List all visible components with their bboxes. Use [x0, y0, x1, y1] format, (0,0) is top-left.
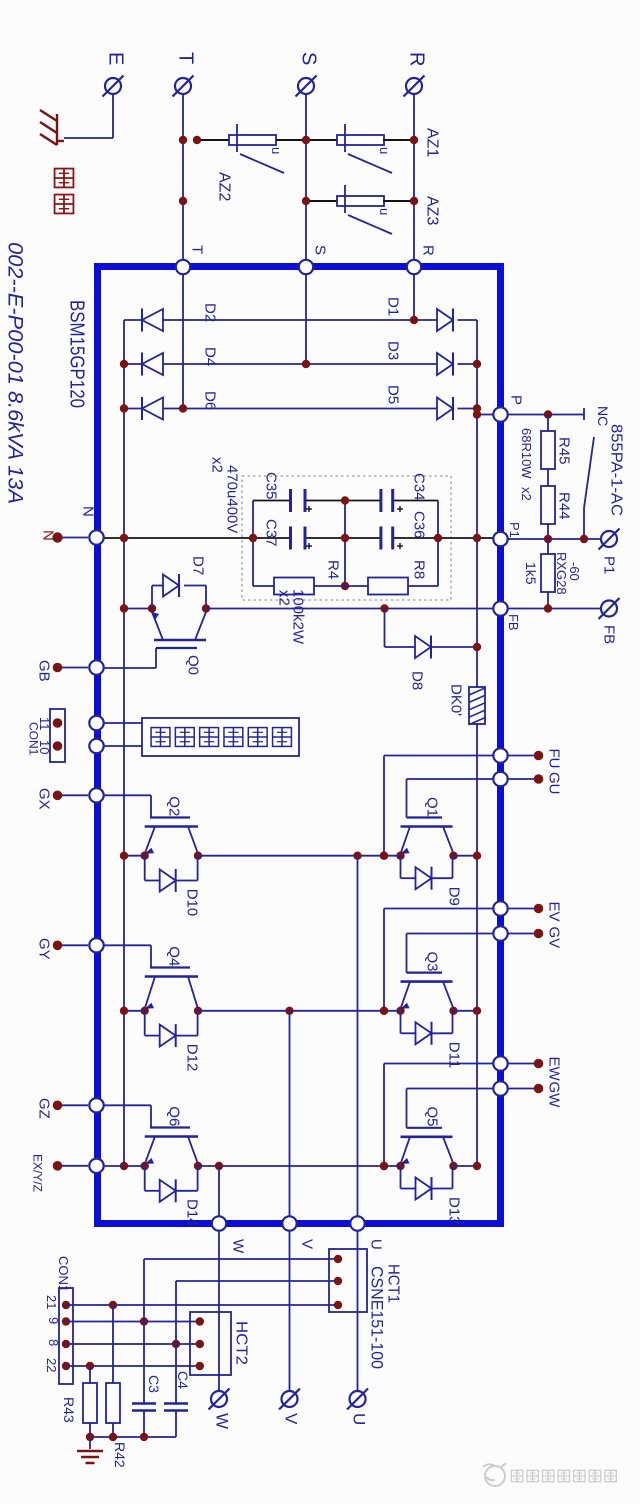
svg-text:N: N [79, 506, 96, 517]
svg-text:9: 9 [46, 1317, 61, 1324]
svg-text:D3: D3 [384, 341, 401, 360]
svg-text:Q0: Q0 [184, 655, 201, 675]
svg-text:EV: EV [545, 902, 562, 922]
svg-text:R: R [419, 245, 436, 256]
svg-text:C4: C4 [175, 1371, 191, 1389]
svg-text:855PA-1-AC: 855PA-1-AC [608, 424, 625, 516]
svg-text:D9: D9 [445, 887, 462, 906]
svg-text:GY: GY [35, 938, 52, 960]
svg-text:R44: R44 [555, 492, 572, 520]
svg-text:AZ2: AZ2 [216, 172, 233, 201]
svg-text:u: u [269, 147, 284, 154]
svg-text:8: 8 [46, 1339, 61, 1346]
svg-text:V: V [298, 1239, 315, 1249]
svg-text:-60: -60 [567, 562, 582, 581]
svg-text:EW: EW [545, 1057, 562, 1082]
svg-text:22: 22 [44, 1358, 59, 1372]
svg-text:R4: R4 [324, 560, 341, 579]
svg-text:W: W [213, 1413, 232, 1429]
svg-text:FU: FU [545, 749, 562, 769]
svg-text:CSNE151-100: CSNE151-100 [368, 1266, 387, 1369]
svg-text:Q4: Q4 [165, 946, 182, 966]
svg-text:C37: C37 [262, 519, 279, 547]
svg-text:C34: C34 [410, 473, 427, 501]
svg-text:GU: GU [545, 772, 562, 795]
svg-text:Q3: Q3 [423, 952, 440, 972]
svg-text:R43: R43 [61, 1397, 77, 1423]
svg-text:V: V [282, 1413, 301, 1425]
svg-text:D6: D6 [201, 391, 218, 410]
svg-text:u: u [377, 208, 392, 215]
svg-text:AZ3: AZ3 [424, 196, 441, 225]
svg-text:D7: D7 [189, 556, 206, 575]
svg-text:S: S [311, 245, 328, 255]
svg-text:Q1: Q1 [423, 797, 440, 817]
svg-text:P1: P1 [507, 522, 522, 538]
svg-text:EX/Y/Z: EX/Y/Z [31, 1154, 45, 1192]
svg-text:R45: R45 [555, 437, 572, 465]
svg-text:D14: D14 [183, 1199, 200, 1227]
svg-text:T: T [174, 52, 196, 64]
svg-text:P: P [507, 395, 524, 405]
svg-text:P1: P1 [600, 556, 617, 574]
svg-text:D12: D12 [183, 1044, 200, 1072]
svg-text:CON1: CON1 [27, 722, 41, 756]
svg-text:C35: C35 [262, 472, 279, 500]
svg-text:x2: x2 [275, 590, 292, 606]
svg-text:Q6: Q6 [165, 1106, 182, 1126]
svg-text:GB: GB [35, 660, 52, 682]
svg-text:GV: GV [545, 927, 562, 949]
svg-text:470u400V: 470u400V [223, 465, 240, 533]
svg-text:W: W [229, 1239, 246, 1254]
svg-text:D10: D10 [183, 889, 200, 917]
svg-text:CON1: CON1 [56, 1256, 71, 1292]
svg-text:GZ: GZ [35, 1098, 52, 1119]
svg-text:1k5: 1k5 [523, 562, 539, 585]
svg-text:D5: D5 [384, 385, 401, 404]
svg-text:x2: x2 [208, 457, 225, 473]
svg-text:Q2: Q2 [165, 796, 182, 816]
svg-text:S: S [297, 52, 319, 65]
svg-text:x2: x2 [519, 487, 534, 501]
svg-text:D4: D4 [201, 347, 218, 366]
svg-text:R8: R8 [410, 560, 427, 579]
svg-text:AZ1: AZ1 [424, 128, 441, 157]
svg-text:U: U [367, 1239, 384, 1250]
svg-text:T: T [188, 245, 205, 254]
svg-text:C3: C3 [146, 1375, 162, 1393]
svg-text:GW: GW [545, 1082, 562, 1109]
svg-text:FB: FB [600, 625, 617, 644]
svg-text:D13: D13 [445, 1197, 462, 1225]
svg-text:D8: D8 [408, 671, 425, 690]
svg-text:21: 21 [44, 1295, 59, 1309]
svg-text:C36: C36 [410, 511, 427, 539]
svg-text:D2: D2 [201, 303, 218, 322]
svg-text:u: u [377, 147, 392, 154]
svg-text:E: E [104, 52, 126, 65]
svg-text:U: U [350, 1413, 369, 1425]
svg-text:68R10W: 68R10W [519, 428, 534, 479]
svg-text:002--E-P00-01 8.6kVA 13A: 002--E-P00-01 8.6kVA 13A [4, 242, 27, 504]
svg-text:FB: FB [506, 614, 521, 631]
svg-text:RXG28: RXG28 [554, 552, 569, 595]
svg-text:R42: R42 [112, 1442, 128, 1468]
svg-text:R: R [405, 52, 427, 66]
svg-text:GX: GX [35, 788, 52, 810]
svg-text:HCT2: HCT2 [233, 1321, 250, 1365]
svg-text:D1: D1 [384, 297, 401, 316]
svg-text:Q5: Q5 [423, 1107, 440, 1127]
svg-text:BSM15GP120: BSM15GP120 [65, 300, 87, 408]
svg-text:DK0': DK0' [447, 684, 464, 716]
